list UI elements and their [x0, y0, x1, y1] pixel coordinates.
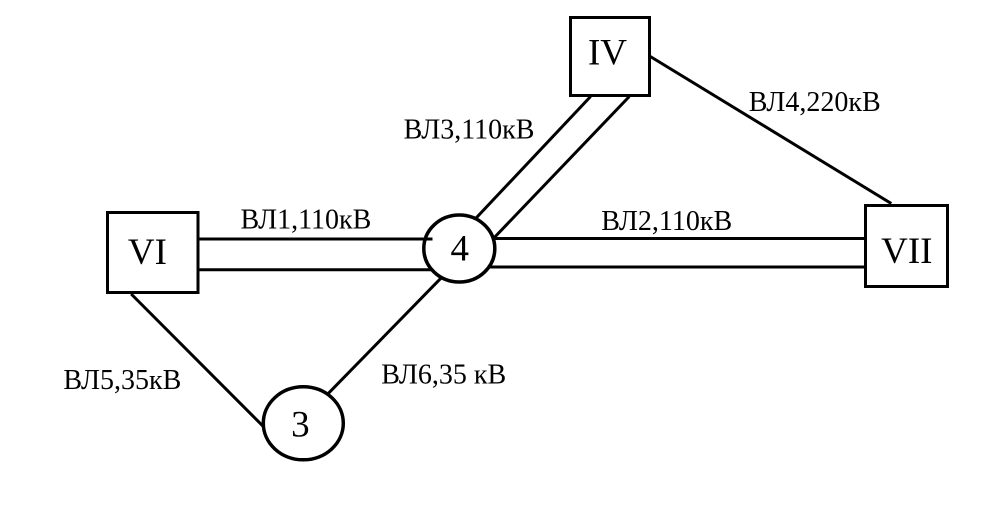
svg-text:ВЛ2,110кВ: ВЛ2,110кВ: [601, 206, 732, 237]
svg-text:IV: IV: [588, 33, 627, 74]
node 4 (circle): [424, 215, 495, 282]
svg-text:4: 4: [451, 229, 470, 270]
node 3 (circle): [263, 387, 343, 460]
wire ВЛ3 right conductor (IV to node 4): [487, 97, 629, 246]
svg-text:ВЛ6,35 кВ: ВЛ6,35 кВ: [381, 360, 506, 391]
node VII (substation box): [866, 206, 948, 287]
svg-text:VII: VII: [881, 231, 932, 272]
wire ВЛ2 bottom conductor (node 4 to VII): [452, 266, 865, 269]
wire stub of ВЛ1 inside node 4: [421, 238, 433, 241]
svg-text:VI: VI: [128, 232, 167, 273]
wire ВЛ1 top conductor (VI to node 4): [199, 238, 466, 241]
svg-text:ВЛ4,220кВ: ВЛ4,220кВ: [749, 87, 881, 118]
wire ВЛ3 left conductor (IV to node 4): [465, 97, 591, 231]
svg-text:ВЛ5,35кВ: ВЛ5,35кВ: [63, 365, 181, 396]
wire ВЛ6 (node 3 to node 4): [309, 266, 453, 413]
svg-text:ВЛ1,110кВ: ВЛ1,110кВ: [241, 205, 372, 236]
node IV (substation box): [571, 18, 650, 96]
node VI (substation box): [108, 213, 199, 293]
wire ВЛ2 top conductor (node 4 to VII): [452, 237, 865, 240]
wire ВЛ4 (IV to VII): [650, 57, 891, 204]
svg-text:ВЛ3,110кВ: ВЛ3,110кВ: [404, 115, 535, 146]
wire ВЛ1 bottom conductor (VI to node 4): [199, 268, 466, 271]
svg-text:3: 3: [291, 405, 310, 446]
wire ВЛ5 (VI to node 3): [131, 294, 268, 432]
